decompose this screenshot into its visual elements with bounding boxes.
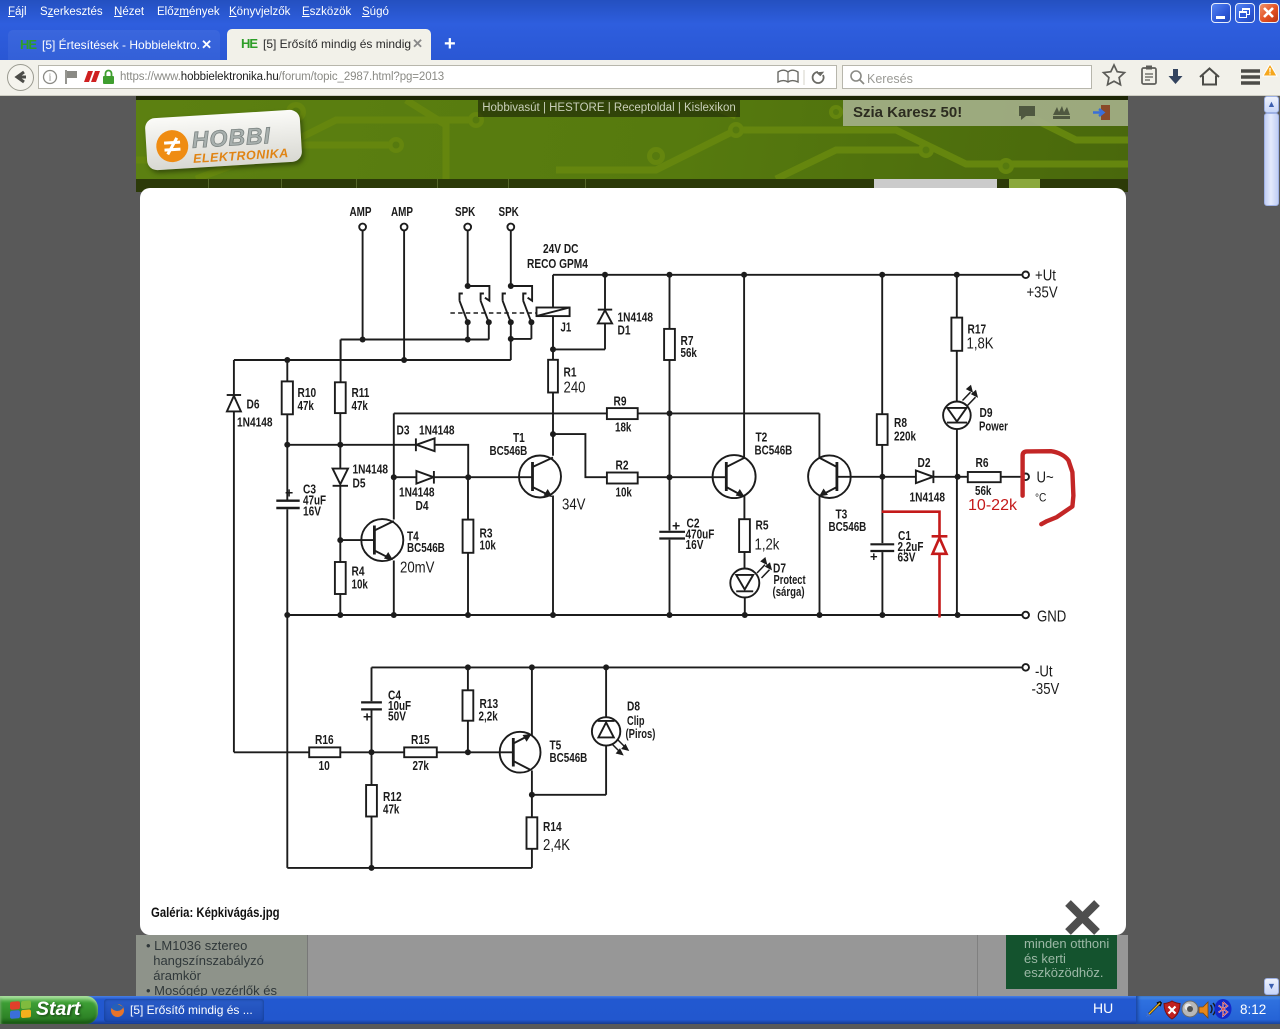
wire bus2 xyxy=(234,359,511,361)
terminal U~ xyxy=(1022,474,1029,481)
svg-text:63V: 63V xyxy=(898,550,916,565)
svg-text:220k: 220k xyxy=(894,429,917,444)
svg-text:56k: 56k xyxy=(975,483,992,498)
wire coil bottom to node xyxy=(552,316,554,349)
svg-text:+: + xyxy=(870,549,878,564)
svg-text:BC546B: BC546B xyxy=(755,443,793,458)
gallery caption xyxy=(151,905,280,920)
svg-text:R6: R6 xyxy=(976,455,989,470)
wire T5 base row xyxy=(468,751,513,753)
resistor R1 xyxy=(548,349,558,455)
svg-text:47k: 47k xyxy=(352,398,369,413)
browser window: menu bar xyxy=(0,0,1280,60)
diode D5 xyxy=(333,445,348,540)
wire -Ut rail xyxy=(372,666,1023,668)
wire node to D1 xyxy=(553,348,605,350)
svg-text:R5: R5 xyxy=(756,518,769,533)
lightbox close button xyxy=(1065,900,1105,940)
wire T4 base row xyxy=(340,539,374,541)
capacitor C2 xyxy=(659,532,685,615)
svg-text:1N4148: 1N4148 xyxy=(419,423,455,438)
svg-text:RECO GPM4: RECO GPM4 xyxy=(527,256,588,271)
wire bottom rail xyxy=(287,867,532,869)
svg-text:R15: R15 xyxy=(411,732,430,747)
transistor T1 xyxy=(519,456,561,616)
LED D8 xyxy=(592,667,628,754)
diode D3 xyxy=(416,438,435,451)
wire T5 collector to D8 xyxy=(532,746,606,795)
LED D7 xyxy=(730,558,771,615)
wire AMP2 down to bus2 xyxy=(403,231,405,361)
svg-text:16V: 16V xyxy=(686,537,704,552)
svg-text:R2: R2 xyxy=(616,458,629,473)
svg-text:+Ut: +Ut xyxy=(1035,268,1056,285)
svg-text:10-22k: 10-22k xyxy=(968,497,1018,514)
svg-text:50V: 50V xyxy=(388,709,406,724)
wire D4 row xyxy=(394,476,533,478)
svg-text:10k: 10k xyxy=(352,577,369,592)
diode D1 xyxy=(598,275,612,350)
svg-text:20mV: 20mV xyxy=(400,560,435,577)
svg-text:16V: 16V xyxy=(303,504,321,519)
resistor R8 xyxy=(877,275,888,477)
svg-text:R14: R14 xyxy=(543,819,562,834)
capacitor C1 xyxy=(870,477,894,615)
transistor T3 xyxy=(808,413,882,615)
relay contact set K1a xyxy=(460,286,490,322)
svg-text:J1: J1 xyxy=(561,320,572,335)
relay contact set K1b xyxy=(481,294,489,323)
svg-text:(sárga): (sárga) xyxy=(773,584,805,599)
wire contact outputs to bus1 xyxy=(468,322,489,339)
resistor R5 xyxy=(739,519,750,568)
wire AMP1 down to bus1 xyxy=(362,231,364,340)
svg-text:10k: 10k xyxy=(480,538,497,553)
svg-text:i: i xyxy=(49,73,52,84)
svg-text:GND: GND xyxy=(1037,609,1066,626)
wire SPK1 down to contact feed xyxy=(467,231,469,287)
resistor R4 xyxy=(335,540,346,615)
svg-text:D6: D6 xyxy=(247,397,260,412)
transistor T4 xyxy=(361,413,403,615)
relay contact set K2a xyxy=(503,286,532,322)
svg-text:10k: 10k xyxy=(616,485,633,500)
wire D3 row xyxy=(287,445,468,477)
svg-text:27k: 27k xyxy=(413,758,430,773)
wire +35V top rail xyxy=(553,274,1022,276)
svg-text:AMP: AMP xyxy=(391,204,413,219)
wire GND rail xyxy=(287,614,1022,616)
svg-text:1N4148: 1N4148 xyxy=(910,490,946,505)
svg-text:!: ! xyxy=(1269,67,1272,77)
resistor R3 xyxy=(463,477,474,615)
resistor R14 xyxy=(527,795,538,868)
svg-text:47k: 47k xyxy=(298,398,315,413)
svg-text:-35V: -35V xyxy=(1032,681,1060,698)
resistor R6 xyxy=(958,472,1023,482)
svg-text:BC546B: BC546B xyxy=(550,750,588,765)
svg-text:BC546B: BC546B xyxy=(407,540,445,555)
tab 1 (inactive) xyxy=(8,30,220,60)
wire left column to R16 xyxy=(234,751,309,753)
diode D6 xyxy=(227,360,241,752)
terminal +Ut xyxy=(1022,272,1029,279)
svg-text:SPK: SPK xyxy=(455,204,476,219)
svg-text:BC546B: BC546B xyxy=(829,519,867,534)
tab 2 (active) xyxy=(227,29,431,60)
svg-text:1N4148: 1N4148 xyxy=(353,462,389,477)
LED D9 xyxy=(943,386,977,615)
svg-text:D3: D3 xyxy=(397,423,410,438)
terminal SPK1 xyxy=(464,224,471,231)
svg-text:47k: 47k xyxy=(383,802,400,817)
svg-text:SPK: SPK xyxy=(499,204,520,219)
resistor R9 xyxy=(607,408,638,419)
svg-text:18k: 18k xyxy=(615,420,632,435)
resistor R2 xyxy=(607,473,726,484)
red annotation wire and diode xyxy=(882,512,948,618)
capacitor C4 xyxy=(361,667,382,752)
scrollbar xyxy=(1264,96,1280,996)
relay coil J1 xyxy=(537,308,570,317)
svg-text:+: + xyxy=(363,709,371,725)
svg-text:24V DC: 24V DC xyxy=(543,241,579,256)
svg-text:1N4148: 1N4148 xyxy=(237,415,273,430)
node dots xyxy=(284,272,960,871)
svg-text:2,4K: 2,4K xyxy=(543,837,571,854)
svg-text:R1: R1 xyxy=(564,365,577,380)
wire GND drop to bottom rail xyxy=(286,615,288,868)
diode D4 xyxy=(416,471,434,484)
terminal AMP1 xyxy=(359,224,366,231)
wire SPK2 down to contact feed xyxy=(510,231,512,287)
resistor R7 xyxy=(664,275,675,414)
resistor R17 xyxy=(951,275,962,402)
transistor T5 xyxy=(500,667,541,794)
svg-text:(Piros): (Piros) xyxy=(626,726,656,741)
terminal -Ut xyxy=(1022,664,1029,671)
transistor T2 xyxy=(713,275,756,519)
svg-text:34V: 34V xyxy=(562,497,586,514)
schematic labels xyxy=(237,204,1066,854)
resistor R13 xyxy=(463,667,474,752)
svg-text:-Ut: -Ut xyxy=(1035,664,1053,681)
resistor R11 xyxy=(335,340,346,445)
wire coil to +rail xyxy=(552,275,554,308)
resistor R15 xyxy=(372,747,468,757)
svg-text:AMP: AMP xyxy=(350,204,372,219)
taskbar xyxy=(0,996,1280,1024)
svg-text:R16: R16 xyxy=(315,732,334,747)
svg-text:1,8K: 1,8K xyxy=(967,336,995,353)
svg-text:+35V: +35V xyxy=(1027,285,1059,302)
svg-text:R9: R9 xyxy=(614,394,627,409)
resistor R10 xyxy=(282,360,293,445)
svg-text:U~: U~ xyxy=(1037,470,1054,487)
svg-text:D5: D5 xyxy=(353,476,366,491)
relay contact set K2b xyxy=(523,294,531,323)
svg-text:Power: Power xyxy=(979,419,1008,434)
red annotation circle xyxy=(1023,451,1074,524)
navigation toolbar xyxy=(0,60,1280,96)
svg-text:D4: D4 xyxy=(416,498,430,513)
svg-text:+: + xyxy=(672,518,680,534)
svg-text:10: 10 xyxy=(319,758,330,773)
wire R9 row xyxy=(394,412,820,414)
resistor R16 xyxy=(309,747,371,757)
wire bus1 xyxy=(341,340,489,361)
svg-text:240: 240 xyxy=(564,380,586,397)
red annotation text 10-22k xyxy=(968,497,1018,514)
svg-text:+: + xyxy=(285,485,293,501)
svg-text:D8: D8 xyxy=(627,699,640,714)
svg-text:D2: D2 xyxy=(918,455,931,470)
wire contact outputs to bus2 xyxy=(511,322,532,360)
capacitor C3 xyxy=(276,445,299,615)
site logo xyxy=(145,109,303,170)
svg-text:2,2k: 2,2k xyxy=(479,709,499,724)
svg-text:R17: R17 xyxy=(968,322,987,337)
svg-text:D1: D1 xyxy=(618,323,631,338)
node T1 collector xyxy=(553,434,607,477)
relay actuator dashed link xyxy=(450,312,536,314)
svg-text:56k: 56k xyxy=(681,345,698,360)
svg-text:°C: °C xyxy=(1035,491,1047,505)
svg-text:BC546B: BC546B xyxy=(490,443,528,458)
diode D2 xyxy=(882,471,957,484)
resistor R12 xyxy=(366,752,377,868)
terminal SPK2 xyxy=(507,224,514,231)
terminal GND xyxy=(1022,612,1029,619)
wire R7 column to C2 xyxy=(669,413,671,530)
svg-text:1,2k: 1,2k xyxy=(755,537,780,554)
terminal AMP2 xyxy=(401,224,408,231)
